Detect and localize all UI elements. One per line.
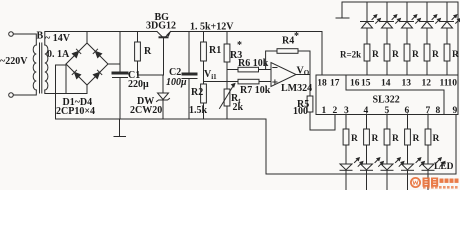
IC SL322 box [316, 75, 458, 115]
resistor R6 10k [227, 69, 238, 71]
svg-text:220μ: 220μ [128, 79, 149, 90]
diode D4 [93, 70, 102, 79]
watermark logo [411, 178, 459, 189]
top LED column 3 [401, 2, 421, 75]
wire output [296, 74, 310, 76]
wire left vertex short drop [65, 64, 67, 94]
svg-text:R7 10k: R7 10k [240, 85, 271, 96]
wire ground step down [266, 119, 456, 174]
svg-text:3DG12: 3DG12 [146, 21, 176, 32]
svg-text:13: 13 [402, 78, 412, 88]
svg-text:~ 14V: ~ 14V [45, 33, 71, 44]
svg-text:100: 100 [293, 106, 308, 117]
bottom LED column 3 [381, 114, 404, 174]
top LED rail [342, 2, 458, 75]
AC source terminal bottom [9, 93, 14, 98]
wire secondary bottom [45, 90, 87, 94]
top +12V rail [87, 31, 157, 33]
svg-text:R=2k: R=2k [340, 50, 361, 60]
svg-text:14: 14 [381, 78, 391, 88]
svg-text:18: 18 [317, 78, 327, 88]
wire bridge minus to ground rail [86, 85, 88, 94]
svg-text:15: 15 [361, 78, 371, 88]
svg-text:R: R [452, 50, 459, 60]
top LED column 2 [381, 2, 401, 75]
bottom LED column 5 [422, 114, 445, 174]
wire right edge to pin9 [455, 115, 457, 175]
resistor R2 [201, 84, 207, 103]
svg-text:7: 7 [426, 106, 431, 116]
svg-text:R: R [372, 134, 379, 144]
IC inner divider [346, 75, 444, 115]
svg-text:2k: 2k [233, 102, 244, 113]
bottom LED column 4 [402, 114, 425, 174]
op-amp non-inverting input mark [273, 81, 277, 83]
svg-text:R: R [392, 50, 399, 60]
op-amp U LM324 [271, 63, 296, 87]
svg-text:2CW20: 2CW20 [130, 105, 162, 116]
wire [13, 34, 36, 45]
wire tails below bottom rail [345, 174, 347, 190]
bridge rectifier D1~D4 diamond [66, 43, 108, 85]
svg-text:*: * [237, 40, 242, 51]
capacitor C2 [188, 32, 190, 73]
ground rail [56, 118, 267, 120]
op-amp inverting input mark [273, 67, 277, 69]
wire R5 to pin2 [310, 112, 335, 130]
top LED column 1 [361, 2, 381, 75]
zener diode DW 2CW20 [162, 75, 164, 93]
svg-text:B: B [37, 31, 44, 42]
capacitor C1 [119, 32, 121, 72]
svg-text:R: R [412, 50, 419, 60]
diode D1 [72, 49, 81, 58]
diode D3 [72, 70, 81, 79]
svg-text:10: 10 [448, 78, 458, 88]
wire base lead [163, 38, 165, 75]
transistor BG 3DG12 [157, 32, 162, 37]
svg-text:100μ: 100μ [166, 77, 187, 88]
svg-text:R: R [351, 134, 358, 144]
resistor R4 feedback [266, 51, 277, 70]
svg-text:R: R [144, 46, 152, 57]
svg-text:R: R [392, 134, 399, 144]
svg-text:R: R [433, 134, 440, 144]
svg-text:R: R [372, 50, 379, 60]
svg-text:8: 8 [436, 106, 441, 116]
wire left vertex drop [56, 65, 67, 119]
svg-text:3: 3 [344, 106, 349, 116]
wire [13, 90, 36, 95]
svg-text:R: R [413, 134, 420, 144]
AC source terminal top [9, 32, 14, 37]
top LED column 4 [421, 2, 441, 75]
thermistor Rt [224, 89, 230, 106]
svg-text:SL322: SL322 [373, 95, 400, 106]
svg-text:16: 16 [350, 78, 360, 88]
resistor R5 [307, 96, 313, 112]
svg-text:~220V: ~220V [0, 56, 28, 67]
svg-text:5: 5 [385, 106, 390, 116]
svg-text:R4: R4 [282, 36, 294, 47]
svg-text:LM324: LM324 [281, 83, 312, 94]
svg-text:6: 6 [405, 106, 410, 116]
svg-text:2CP10×4: 2CP10×4 [56, 106, 95, 117]
svg-text:9: 9 [453, 106, 458, 116]
resistor R7 10k [204, 81, 239, 83]
transformer core [39, 43, 41, 93]
bottom LED column 2 [361, 114, 384, 174]
wire secondary top to bridge top vertex [45, 32, 87, 46]
svg-text:LED: LED [434, 162, 454, 172]
top LED column 5 [441, 2, 460, 75]
svg-text:1.5k: 1.5k [189, 105, 208, 116]
transformer B secondary winding [45, 45, 48, 90]
svg-text:0. 1A: 0. 1A [47, 49, 70, 60]
bottom LED column 1 [340, 114, 363, 174]
svg-text:R6 10k: R6 10k [238, 58, 269, 69]
svg-text:12: 12 [422, 78, 432, 88]
svg-text:17: 17 [330, 78, 340, 88]
svg-text:1: 1 [322, 106, 327, 116]
svg-text:R: R [432, 50, 439, 60]
ground symbol main rail [119, 119, 121, 136]
resistor R3 [226, 32, 228, 45]
transformer B primary winding [33, 45, 36, 90]
svg-text:2: 2 [333, 106, 338, 116]
svg-text:R1: R1 [209, 45, 221, 56]
svg-text:4: 4 [364, 106, 369, 116]
resistor R (bias) [137, 32, 139, 43]
svg-text:*: * [294, 31, 299, 42]
ground symbol top [341, 2, 343, 18]
svg-text:R2: R2 [191, 87, 203, 98]
diode D2 [93, 49, 102, 58]
resistor R1 [203, 32, 205, 43]
svg-text:1. 5k+12V: 1. 5k+12V [190, 22, 234, 33]
wire bridge plus to C1 column [108, 63, 120, 65]
